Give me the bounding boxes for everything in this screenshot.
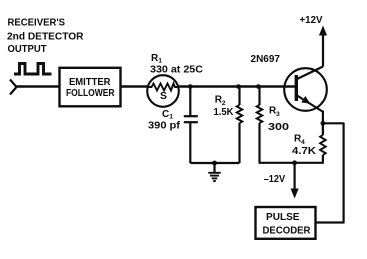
wire: right rail down [343,123,345,222]
svg-text:390 pf: 390 pf [148,121,181,132]
transistor Q1 2N697 [284,67,327,112]
svg-text:RECEIVER'S: RECEIVER'S [8,17,66,28]
label R3 value [268,105,290,133]
svg-text:330 at 25C: 330 at 25C [150,64,203,75]
resistor R4 [320,123,326,163]
svg-text:DECODER: DECODER [263,225,312,236]
label R1 value [150,53,203,76]
node: R3 junction [256,84,261,89]
wire: emitter follower to R1 [121,85,148,88]
svg-text:1: 1 [169,114,173,121]
input signal waveform [14,64,52,75]
node: ground junction [212,161,217,166]
node: R2 junction [236,84,241,89]
svg-text:1.5K: 1.5K [214,107,235,118]
wire: emitter node to right rail [323,122,345,124]
svg-text:2nd DETECTOR: 2nd DETECTOR [7,31,84,42]
wire: input to emitter follower [16,85,60,88]
wire: bias bus R3 to R4 [259,162,324,164]
thermistor R1 [147,75,179,107]
-12V supply arrow [264,163,299,199]
svg-text:PULSE: PULSE [266,212,300,223]
block: pulse decoder U2 [256,207,316,239]
node: emitter junction [321,121,326,126]
capacitor C1 [184,87,198,164]
svg-text:C: C [162,109,169,120]
svg-text:2: 2 [222,100,226,107]
wire: R1 to transistor base [179,85,295,88]
wire: emitter to node [322,111,324,125]
svg-text:OUTPUT: OUTPUT [8,44,47,55]
block: emitter follower U1 [60,68,121,107]
resistor R2 [237,87,243,164]
svg-text:FOLLOWER: FOLLOWER [66,88,115,99]
svg-text:–12V: –12V [264,174,286,185]
label R2 value [214,94,235,118]
svg-text:EMITTER: EMITTER [69,77,111,88]
svg-text:2N697: 2N697 [251,54,281,65]
svg-text:3: 3 [276,111,280,118]
svg-text:+12V: +12V [300,15,323,26]
wire: ground bus [190,162,239,164]
svg-text:4: 4 [301,139,305,146]
+12V supply [300,15,328,67]
resistor R3 [257,87,263,163]
node: -12V junction [292,160,297,165]
ground [208,163,220,181]
svg-text:4.7K: 4.7K [292,146,317,157]
input arrow [10,80,17,95]
label R4 value [292,133,317,157]
node: C1 junction [188,84,193,89]
svg-text:300: 300 [268,122,290,133]
svg-text:S: S [160,91,167,102]
label C1 value [148,109,181,132]
wire: rail to decoder [315,221,344,223]
label: receiver's 2nd detector output [7,17,84,55]
